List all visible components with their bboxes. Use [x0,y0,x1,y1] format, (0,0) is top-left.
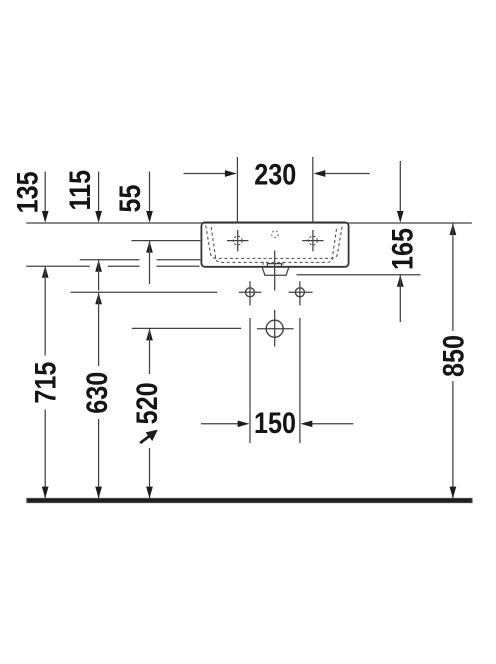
svg-text:850: 850 [436,335,470,377]
dimension 230 line left with arrow [184,173,228,175]
extension line from left fixing hole down to 150 dim [249,318,251,443]
svg-text:150: 150 [254,406,296,440]
dimension 230 extension line left [236,157,238,223]
drain flange outline [267,264,281,267]
dimension 520 upper arrow [146,329,153,341]
washbasin outline [201,222,348,266]
floor line [27,499,472,503]
drain height reference line (520) [132,327,241,329]
tap/fixing hole left in basin [233,236,242,245]
dimension 135 line upper with arrow [44,172,46,214]
basin bottom extension line (135/715) [26,265,89,267]
top reference line (rim level) [26,222,472,224]
dimension 850 upper arrow [450,223,457,235]
dimension 150 line left with arrow [201,423,240,425]
wall fixing holes reference line (630) [71,291,218,293]
svg-text:135: 135 [10,171,44,213]
siphon bottom reference line (165) [297,274,421,276]
dimension 630 upper arrow [95,293,102,305]
dimension 520 line [149,329,151,374]
svg-text:520: 520 [130,382,164,424]
svg-text:55: 55 [113,184,147,212]
tap hole level reference line (55) [132,240,201,242]
dimension 630 line [98,293,100,367]
overflow circle [272,231,279,238]
basin depth reference line (115) [80,259,140,261]
drain opening dashed sides [263,262,283,267]
svg-text:115: 115 [63,170,97,211]
wall fixing hole right [295,288,304,297]
dimension 165 line upper with arrow [399,161,401,213]
extension line from right fixing hole down to 150 dim [299,318,301,443]
drain pipe circle [266,320,283,337]
dimension 55 line upper with arrow [149,172,151,214]
svg-text:165: 165 [385,228,419,270]
wall fixing hole left [246,288,255,297]
dimension 115 line upper with arrow [98,172,100,214]
dimension 850 line [452,223,454,331]
dimension 115 lower arrow [95,260,102,272]
dimension 135 lower / 715 upper arrow [42,266,49,278]
dimension 520 diagonal pointer arrow [140,434,152,443]
vertical centerline through drain circle [274,310,276,347]
dimension 230 line right with arrow [323,173,370,175]
dimension 150 line right with arrow [310,423,353,425]
siphon cover trapezoid [262,268,288,276]
dimension 230 extension line right [312,157,314,223]
dimension 55 lower arrow [146,241,153,253]
dimension 715 line [44,266,46,356]
svg-text:230: 230 [254,157,296,191]
basin inner contour dashed outer [206,226,343,259]
dimension 165 lower arrow [397,275,404,287]
svg-text:630: 630 [80,372,114,414]
basin inner contour dashed inner [211,227,337,262]
svg-text:715: 715 [28,362,62,404]
tap/fixing hole right in basin [309,236,318,245]
vertical centerline upper [274,251,276,291]
